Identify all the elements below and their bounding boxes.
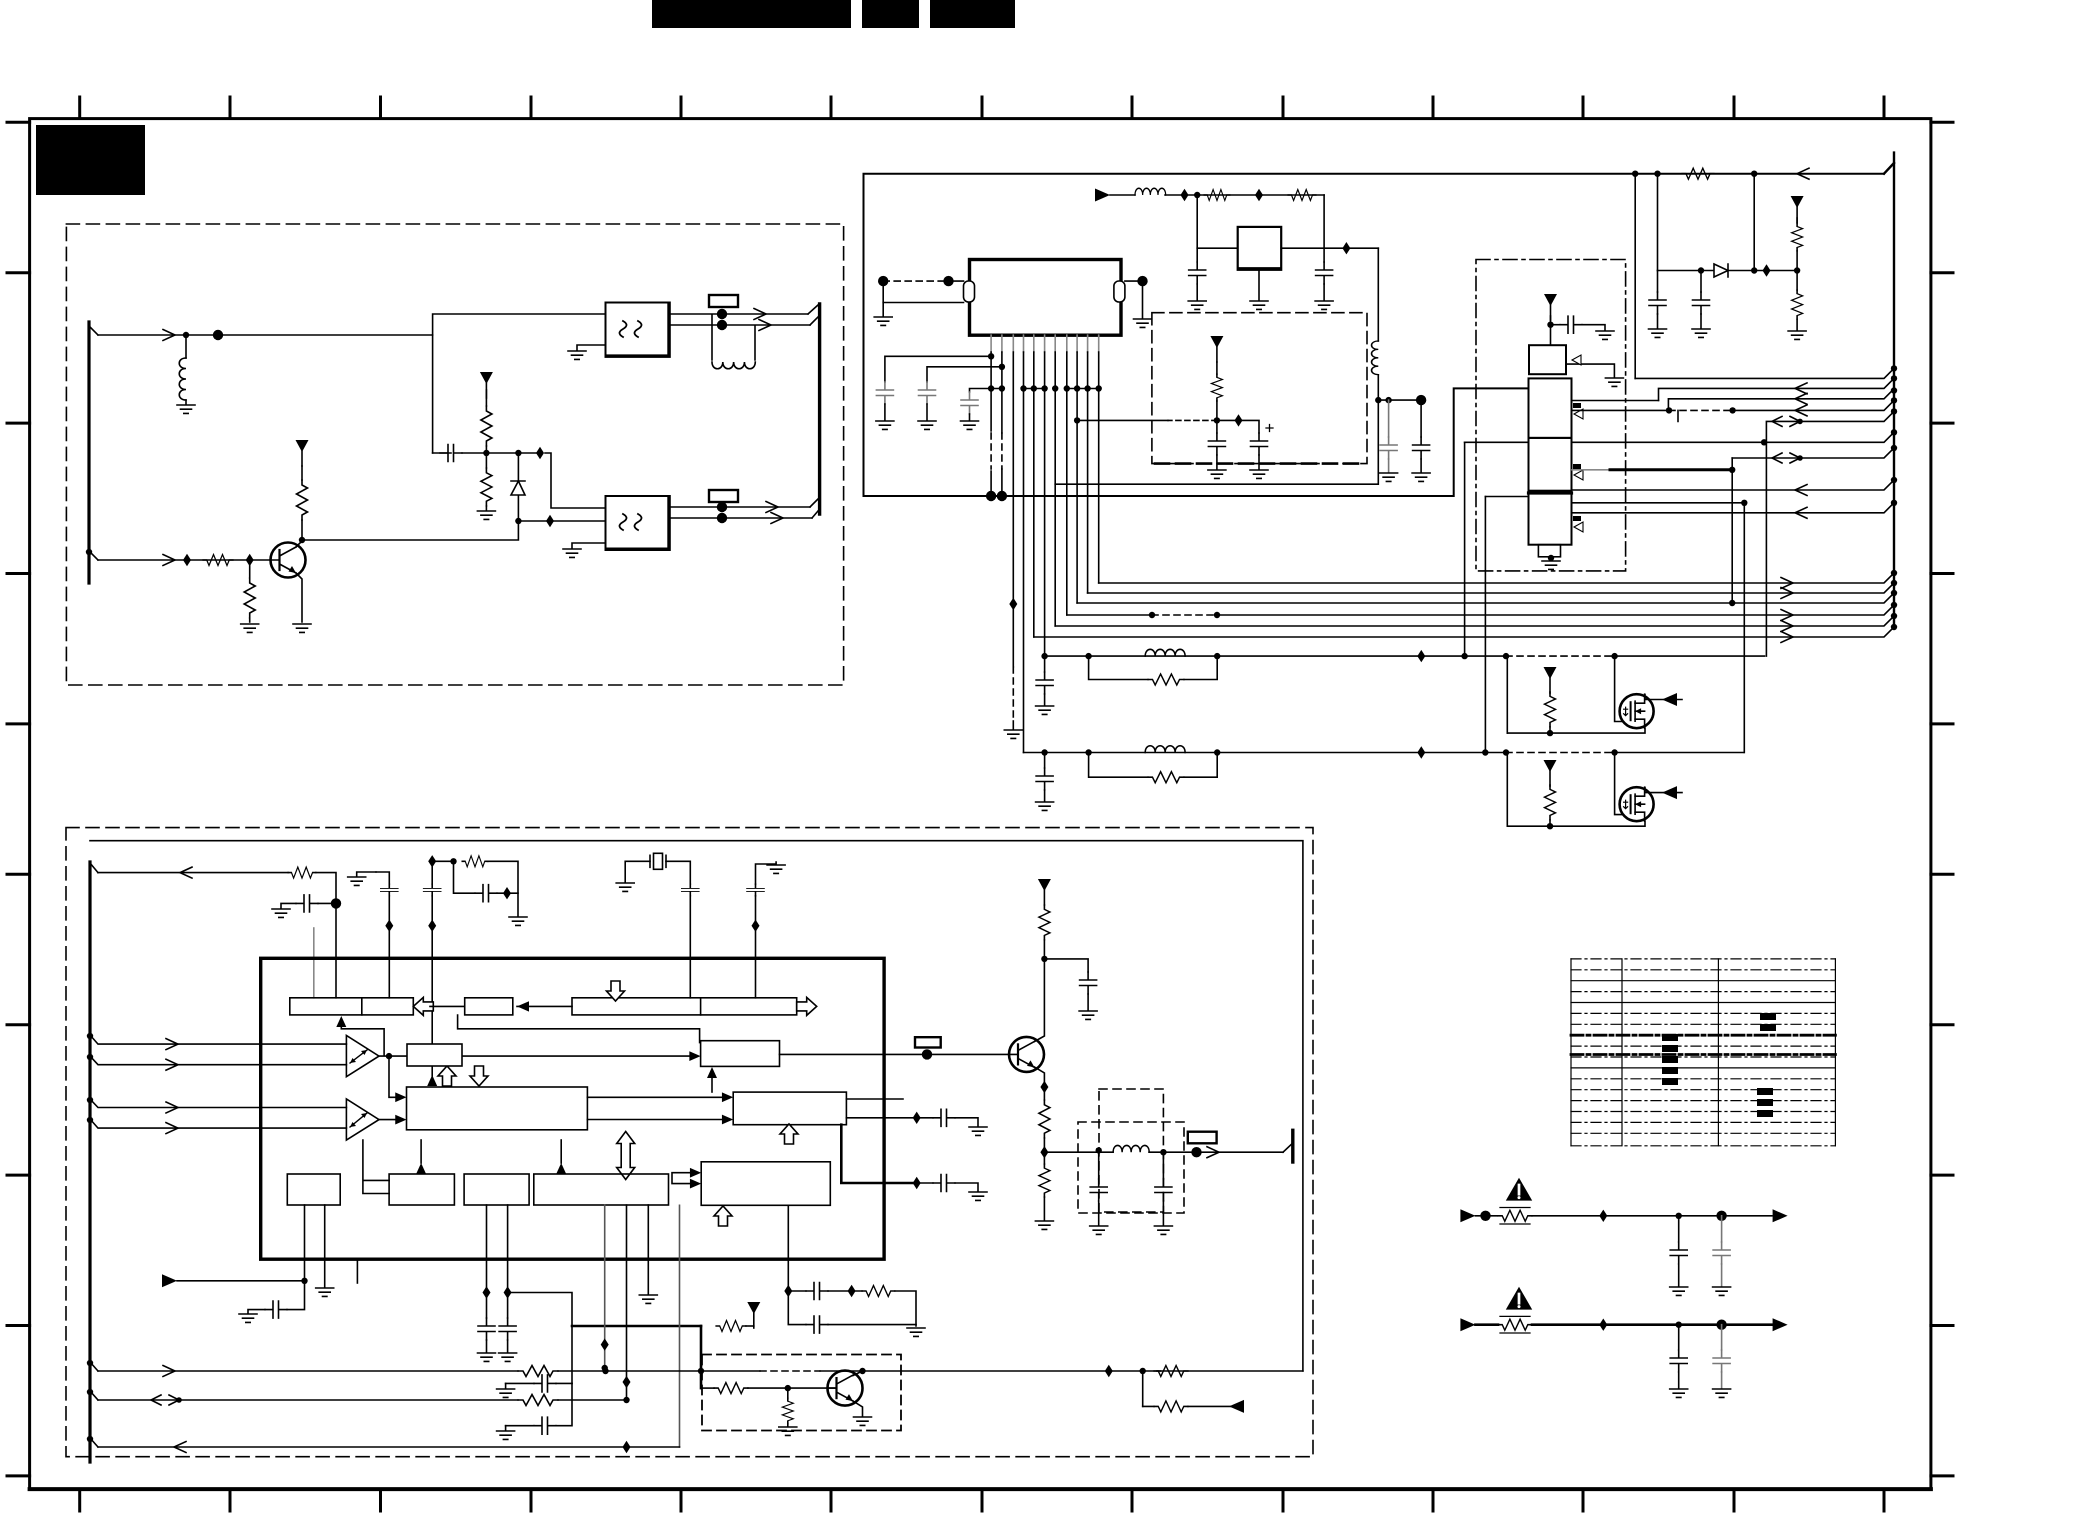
resistor R13	[1545, 692, 1556, 727]
wire drop left	[1634, 174, 1636, 379]
dashed control wire	[1168, 419, 1217, 421]
bundle wire w5	[1055, 616, 1894, 626]
wire to Vref node	[508, 1293, 572, 1327]
block C	[733, 1092, 846, 1125]
resistor R28	[1043, 1152, 1045, 1164]
resistor R11	[1796, 271, 1798, 291]
resistor R17	[462, 856, 488, 867]
resistor R9	[1682, 168, 1714, 179]
wire to FL2 input	[545, 453, 606, 508]
FL2 output wires	[670, 507, 812, 518]
hooks to connector bar	[808, 305, 818, 325]
dashed wire to U2	[883, 280, 948, 282]
J3 hook w1	[90, 1362, 98, 1371]
inductor L5	[1145, 746, 1185, 753]
wire down to regulator right	[1323, 195, 1325, 248]
wire U2 left lower	[883, 281, 963, 302]
filter FL1 ground stub	[577, 345, 606, 350]
node U2 left	[878, 276, 888, 286]
supply input arrow	[1095, 189, 1110, 202]
Q6 drain arrow	[1645, 788, 1682, 793]
Q6 source wire	[1507, 821, 1645, 826]
resistor R6	[1204, 190, 1230, 201]
IC U2	[970, 260, 1122, 336]
Q4 collector	[853, 1371, 863, 1376]
block arrow left	[413, 997, 433, 1015]
supply V1	[296, 440, 309, 466]
op-amp A1	[346, 1036, 379, 1077]
crystal X1	[650, 853, 666, 869]
resistor R3 base bias	[249, 560, 251, 578]
capacitor C7 electrolytic	[1251, 433, 1268, 455]
U2 pin1 tab left	[964, 281, 975, 302]
gray stub into bar A	[313, 928, 315, 998]
capacitor C5	[1420, 400, 1422, 437]
sub block R3	[464, 1174, 529, 1205]
inductor L6	[1113, 1145, 1149, 1152]
IC pin R1a	[304, 1205, 306, 1281]
transistor Q4	[828, 1371, 863, 1406]
reset input arrow	[162, 1274, 177, 1287]
pin 3 net to ground	[1012, 352, 1014, 667]
resistor R18	[716, 1321, 746, 1332]
tuner section dashed border	[66, 224, 843, 685]
fusible resistor FR2	[1498, 1319, 1532, 1330]
corner label redaction box	[36, 125, 145, 195]
driver dash-dot box	[1476, 260, 1626, 571]
bar interconnect wire	[458, 1015, 700, 1043]
driver box B1	[1529, 345, 1566, 374]
sub-module dashed box	[1152, 313, 1367, 464]
updown arrow	[617, 1132, 635, 1180]
wire row y503	[1572, 502, 1745, 504]
wire osc into IC	[431, 861, 433, 884]
wire W3	[98, 1446, 680, 1448]
block arrow right	[797, 997, 817, 1015]
J3 hook top	[90, 863, 98, 873]
resistor R22	[518, 1395, 558, 1406]
short pin rails	[991, 388, 1099, 390]
table redaction bars group A	[1662, 1013, 1776, 1117]
Q3 collector	[1035, 959, 1045, 1042]
wire to filter 1	[433, 314, 606, 453]
Q6 gate wire	[1615, 753, 1622, 815]
up arrow into bar A	[341, 1027, 384, 1055]
left border ticks	[7, 122, 30, 1476]
right border ticks	[1931, 122, 1953, 1476]
resistor R21 series	[1157, 1370, 1161, 1372]
label box D out	[915, 1037, 941, 1047]
right bus bar	[1893, 153, 1895, 623]
IC pin E out	[787, 1205, 789, 1291]
supply V9	[1038, 879, 1051, 905]
A1 output net	[379, 1055, 694, 1057]
warning W1	[1506, 1178, 1532, 1201]
vertical feed A	[1464, 442, 1466, 656]
resistor R20	[518, 1366, 558, 1377]
thick vertical Vref to W1	[700, 1326, 703, 1371]
resistor R12 parallel	[1089, 656, 1218, 679]
resistor R10	[1796, 218, 1798, 223]
pin 6 net	[1044, 352, 1046, 656]
R2 input stubs	[363, 1140, 389, 1194]
J3 hook w3	[90, 1438, 98, 1447]
filter FL2	[606, 496, 670, 550]
Q5 gate wire	[1615, 656, 1622, 721]
capacitor C8	[885, 356, 991, 382]
bus hook dots	[1891, 365, 1897, 371]
node collector	[299, 537, 305, 543]
capacitor C9	[927, 367, 1002, 382]
capacitor C17	[454, 861, 476, 893]
warning W2	[1506, 1287, 1532, 1310]
capacitor C20	[287, 1281, 305, 1310]
supply sense wire	[98, 872, 288, 874]
inner shield wire	[90, 841, 1303, 1371]
pin 11 net	[1098, 352, 1100, 583]
arrows into E	[672, 1173, 695, 1184]
IF section border polyline	[864, 174, 1885, 496]
Q1 collector	[296, 520, 302, 547]
resistor R27	[1043, 1087, 1045, 1100]
capacitor C10	[970, 389, 992, 393]
sub block R1	[287, 1174, 340, 1205]
title redaction bar 1	[652, 0, 851, 28]
dsp block B	[407, 1087, 588, 1130]
node filter	[331, 898, 341, 908]
up open arrow pair	[438, 1066, 456, 1086]
IC pin R3a	[486, 1205, 488, 1293]
register bar A	[290, 998, 414, 1015]
driver box B3	[1529, 438, 1572, 491]
sub block R2	[389, 1174, 454, 1205]
J1 hook top	[89, 326, 98, 335]
B1 gnd wire	[1566, 364, 1614, 377]
sub block R4	[534, 1174, 669, 1205]
title redaction bar 2	[862, 0, 919, 28]
transformer T1	[712, 315, 755, 360]
Q4 sub dashed box	[702, 1355, 901, 1431]
A2 output net	[379, 1119, 400, 1121]
main wire W1	[98, 1370, 518, 1372]
IC pin R1b ground	[324, 1205, 326, 1287]
node RF junction	[213, 330, 223, 340]
wire row y388	[1659, 378, 1895, 400]
FL1 output wires	[670, 314, 810, 325]
AFC net row1	[788, 1290, 806, 1292]
input wire 3	[90, 1099, 346, 1108]
IC pin R3b	[507, 1205, 509, 1293]
label box FL1 part	[709, 295, 738, 307]
latch block DL	[407, 1044, 462, 1066]
wire row y490	[1572, 480, 1895, 490]
supply V6	[1544, 667, 1557, 693]
wire U2 right to ground	[1125, 281, 1143, 318]
bold net row y470	[1572, 469, 1610, 471]
decoupling cluster 2	[357, 872, 376, 876]
supply V4	[1544, 294, 1557, 320]
pin 1 net	[990, 352, 992, 496]
resistor R8	[1216, 362, 1218, 374]
up arrow under E	[714, 1206, 732, 1226]
wire regulator out	[1281, 247, 1378, 249]
bundle wire w2	[1088, 583, 1894, 593]
inductor L1 to ground	[185, 335, 187, 358]
Q4 bias vertical	[700, 1371, 703, 1388]
C output 2 to cap	[846, 1117, 916, 1119]
wire AGC in	[98, 559, 269, 561]
capacitor C27	[1162, 1152, 1164, 1179]
IC pin R4a gray long	[604, 1205, 606, 1368]
sub block F	[465, 998, 513, 1015]
wire drop mid	[1657, 174, 1659, 271]
Q1 emitter to ground	[296, 573, 302, 622]
gate net wire A	[1045, 655, 1765, 657]
capacitor C14	[1041, 653, 1047, 659]
connector J2 bar	[818, 304, 821, 514]
wire W2	[98, 1399, 518, 1401]
capacitor C31	[1721, 1325, 1723, 1350]
resistor R15	[1545, 785, 1556, 820]
transistor Q3	[1009, 1037, 1044, 1072]
capacitor C26	[1098, 1152, 1100, 1179]
feedback loop R/C	[428, 855, 436, 867]
resistor R16	[288, 867, 316, 878]
resistor R2 collector load	[297, 480, 308, 520]
capacitor C19	[756, 862, 777, 884]
filter FL2 ground stub	[572, 543, 606, 548]
inductor L3	[1372, 341, 1379, 375]
pin 8 net	[1066, 352, 1068, 615]
IC pin E riser	[679, 1205, 681, 1447]
wire row y378	[1635, 368, 1894, 378]
LC out wire	[1044, 1151, 1098, 1153]
wire regulator in	[1197, 195, 1238, 248]
supply filter row 2	[1460, 1318, 1475, 1331]
standby rail	[1658, 270, 1798, 272]
op-amp A2	[346, 1099, 379, 1140]
supply V3	[1210, 336, 1223, 362]
diode D2	[1714, 264, 1728, 277]
node AGC rail	[483, 450, 489, 456]
title redaction bar 3	[930, 0, 1015, 28]
arrow feed F	[517, 1005, 572, 1007]
IC pin R4c ground	[647, 1205, 649, 1294]
U2 tab right	[1114, 281, 1125, 302]
MOSFET Q6	[1620, 787, 1654, 821]
wire row y400	[1572, 389, 1895, 411]
capacitor C21	[486, 1293, 488, 1319]
wire RF in	[98, 334, 433, 336]
label box out	[1188, 1132, 1217, 1144]
Q4 emitter ground	[853, 1401, 863, 1416]
bus top wire	[1884, 163, 1894, 174]
block arrow down	[607, 981, 625, 1001]
wire arrow to F	[430, 1005, 465, 1007]
AFC net row2	[788, 1291, 806, 1325]
vertical feed B	[1484, 497, 1486, 753]
bundle wire w3	[1077, 593, 1894, 603]
Vref rail thick	[572, 1325, 701, 1328]
sub block E	[701, 1162, 830, 1206]
bundle wire w4	[1067, 605, 1894, 615]
wire row y442	[1572, 432, 1895, 442]
gate net wire B	[1024, 752, 1744, 754]
resistor R25	[1154, 1401, 1188, 1412]
capacitor C30	[1678, 1325, 1680, 1350]
pin 10 net	[1087, 352, 1089, 593]
capacitor C4	[1388, 400, 1390, 437]
pin glyph marks	[1573, 403, 1581, 408]
wire gate pulldown left	[1506, 656, 1508, 733]
capacitor C12	[1657, 271, 1659, 293]
IC pin R4b	[626, 1205, 628, 1400]
wire L3 node	[1378, 399, 1421, 401]
wire gate pulldown left	[1506, 753, 1508, 827]
capacitor C28	[1678, 1216, 1680, 1242]
input wire 1	[90, 1035, 346, 1044]
wire into IC	[335, 903, 337, 997]
vertical feed to wire4	[1765, 442, 1767, 656]
fusible resistor FR1	[1498, 1210, 1532, 1221]
capacitor C29	[1721, 1216, 1723, 1242]
resistor R19	[862, 1286, 895, 1297]
pin 9 net	[1076, 352, 1078, 603]
arrow into R2	[420, 1140, 422, 1163]
stack left pin mid	[1465, 441, 1529, 443]
pin 5 net	[1033, 352, 1035, 637]
resistor R24	[787, 1388, 789, 1398]
label box FL2 part	[709, 490, 738, 502]
pin 4 net	[1023, 352, 1025, 753]
diode D1	[511, 453, 525, 521]
driver box B4	[1529, 493, 1572, 545]
input wire 2	[90, 1056, 346, 1065]
wire drop right	[1753, 174, 1755, 271]
IC stub pin	[356, 1259, 358, 1283]
bottom border emphasis	[30, 1487, 1931, 1491]
connector J1 bracket	[87, 322, 90, 583]
resistor R7	[1288, 190, 1316, 201]
C output 1	[846, 1098, 903, 1100]
top border ticks	[80, 97, 1884, 118]
J3 hook w2	[90, 1391, 98, 1400]
driver box B5	[1538, 545, 1560, 557]
resistor R4	[481, 406, 492, 446]
capacitor C13	[1700, 271, 1702, 293]
wire row y513	[1572, 503, 1895, 513]
table redaction bars group C	[1757, 1088, 1773, 1095]
U2 pin stubs gray	[991, 335, 1099, 352]
wire row y458 bidir	[1732, 448, 1894, 458]
wire L3 down to pin rail	[1055, 400, 1378, 484]
inductor L2	[1135, 188, 1166, 195]
C bottom thick net	[841, 1125, 916, 1183]
supply V7	[1544, 760, 1557, 786]
wire row y421 bidir	[1766, 411, 1894, 442]
capacitor C22	[507, 1293, 509, 1319]
ground below L1	[177, 405, 195, 413]
capacitor C15	[1041, 749, 1047, 755]
processor section dashed border	[66, 828, 1313, 1457]
resistor R5	[485, 453, 487, 468]
wire to inductor L3	[1377, 248, 1379, 341]
Q4 base resistor R23	[701, 1387, 714, 1389]
supply filter row 1	[1460, 1209, 1475, 1222]
arrows into C	[587, 1097, 727, 1119]
register bar B	[572, 998, 797, 1015]
connector J4 bar	[1283, 1143, 1293, 1152]
supply V5	[1791, 196, 1804, 222]
inductor L4	[1088, 655, 1090, 657]
capacitor C18	[682, 884, 699, 896]
Q5 source wire	[1507, 728, 1645, 733]
input wire 4	[90, 1119, 346, 1128]
table redaction bars group B	[1760, 1013, 1776, 1020]
arrow on RF wire	[163, 330, 175, 341]
capacitor C25	[1044, 959, 1088, 972]
IC U1 main processor	[261, 958, 884, 1259]
D output to Q3	[780, 1053, 1010, 1055]
MOSFET Q5	[1620, 694, 1654, 728]
J1 hook lower	[89, 551, 98, 560]
capacitor C24	[506, 1425, 534, 1427]
pin 2 net	[1001, 352, 1003, 496]
audio out LC dashed boxes	[1099, 1089, 1163, 1212]
A1 branch to B-block	[389, 1056, 400, 1097]
supply V2	[480, 372, 493, 398]
capacitor C16	[296, 895, 318, 912]
capacitor C6	[1216, 420, 1218, 433]
wire row y410	[1572, 400, 1895, 421]
bundle wire w1	[1099, 573, 1894, 583]
pin 7 net	[1054, 352, 1056, 626]
wire diode row to FL2	[518, 520, 605, 522]
connector J3 bracket	[88, 862, 91, 1462]
capacitor C23	[506, 1382, 534, 1384]
mid block D	[701, 1041, 780, 1067]
arrow into D bottom	[711, 1078, 713, 1092]
regulator U3	[1238, 227, 1282, 270]
regulator gnd pin	[1258, 270, 1260, 300]
resistor R26	[1039, 905, 1050, 940]
wire collector to diode	[302, 521, 518, 540]
driver box B2	[1529, 378, 1572, 438]
hooks to connector bar	[810, 499, 818, 518]
filter FL1	[606, 303, 670, 357]
supply V8 pulldown	[747, 1302, 760, 1328]
arrow into B top	[427, 1075, 437, 1086]
resistor R14 parallel	[1089, 753, 1218, 778]
bottom border ticks	[80, 1489, 1884, 1511]
up arrow under C	[780, 1124, 798, 1144]
resistor R1	[203, 555, 233, 566]
transistor Q1	[271, 543, 306, 578]
AGC return branch	[1142, 1371, 1144, 1406]
wire supply feed	[1110, 194, 1135, 196]
Q3 emitter	[1035, 1067, 1045, 1087]
Q5 drain arrow	[1645, 695, 1682, 700]
bundle wire w6	[1034, 627, 1894, 637]
capacitor C2	[1196, 248, 1198, 262]
capacitor C1	[433, 452, 451, 454]
capacitor C3	[1323, 248, 1325, 262]
capacitor C11	[1551, 324, 1561, 326]
stack left pin low	[1485, 496, 1528, 498]
version table frame	[1571, 959, 1835, 1146]
arrow into R4	[560, 1140, 562, 1163]
